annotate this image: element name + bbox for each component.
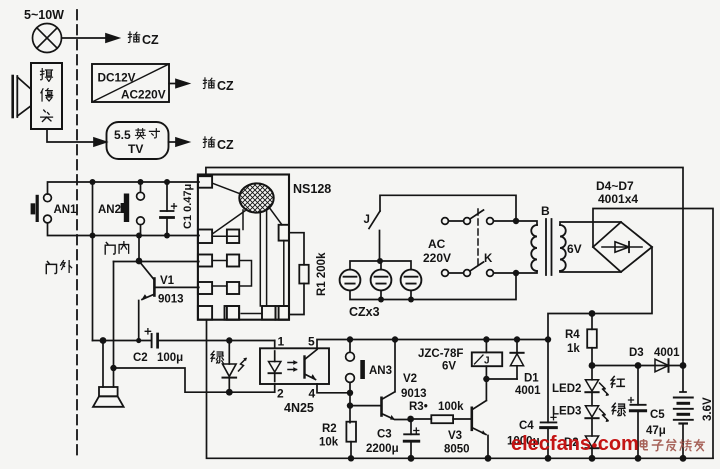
IC NS128 body: [198, 175, 289, 320]
svg-text:AN1: AN1: [54, 204, 78, 216]
wire AN2 leg down to C2 line: [92, 236, 94, 341]
svg-text:B: B: [541, 204, 550, 218]
node V2 collector: [392, 336, 398, 342]
wire AN1/AN2 divider: [92, 182, 94, 236]
pushbutton AN1: [31, 194, 78, 223]
arrow to CZ row3: [176, 138, 189, 146]
transistor V1 9013: [139, 261, 199, 341]
svg-text:9013: 9013: [158, 294, 184, 306]
node speaker right: [110, 365, 116, 371]
svg-text:1: 1: [278, 335, 285, 349]
svg-text:CZ: CZ: [142, 33, 159, 47]
svg-text:AC220V: AC220V: [121, 88, 166, 102]
node AN3 top: [347, 336, 353, 342]
bridge rectifier D4~D7: [593, 222, 652, 272]
wire chip top to right edge, down to D3 node: [206, 168, 683, 366]
svg-text:2200μ: 2200μ: [366, 443, 399, 455]
svg-text:C2: C2: [133, 352, 148, 364]
node D1 top: [514, 336, 520, 342]
svg-text:AN3: AN3: [369, 365, 392, 377]
node AN3 bottom: [347, 390, 353, 396]
label 插CZ row1: [128, 32, 159, 47]
wire left bend down to speaker node: [113, 262, 115, 369]
socket CZ 2: [371, 270, 392, 291]
node R4 top: [589, 310, 596, 317]
wire bottom rail: [207, 320, 714, 459]
svg-text:2: 2: [277, 387, 284, 401]
wire CZ bottom bus: [350, 273, 516, 299]
watermark elecfans.com: [511, 433, 705, 455]
arrow to CZ row2: [176, 80, 189, 88]
svg-text:K: K: [484, 253, 493, 265]
LED green indicator: [223, 341, 247, 393]
wire J top rail: [380, 195, 516, 218]
svg-text:R2: R2: [322, 423, 337, 435]
label 红: [611, 376, 624, 387]
svg-text:C5: C5: [650, 409, 665, 421]
pin boxes inner column: [227, 230, 239, 244]
svg-text:LED3: LED3: [552, 406, 581, 418]
svg-text:3.6V: 3.6V: [702, 397, 714, 421]
node bottom rail junctions: [348, 455, 687, 462]
coupling arrows: [288, 363, 297, 370]
svg-text:D3: D3: [629, 347, 644, 359]
diode D1 4001: [510, 340, 541, 398]
svg-text:CZ: CZ: [217, 79, 234, 93]
K actuator dashed link: [477, 209, 479, 267]
svg-text:R3•: R3•: [409, 401, 428, 413]
wire bridge left vertex to right edge: [593, 209, 713, 459]
svg-text:5.5: 5.5: [114, 128, 131, 142]
transformer B primary: [516, 221, 537, 225]
svg-text:5~10W: 5~10W: [24, 8, 64, 22]
socket CZ 1: [340, 270, 361, 291]
svg-text:C4: C4: [519, 420, 534, 432]
svg-text:J: J: [364, 214, 370, 226]
capacitor C2 100u: [133, 329, 183, 364]
svg-text:100k: 100k: [438, 401, 464, 413]
label 插CZ row2: [203, 78, 234, 93]
node rail junctions: [90, 179, 171, 239]
LED2 red: [552, 366, 609, 397]
camera box 摄像头: [31, 63, 62, 129]
label 门外: [46, 261, 71, 274]
node base branch: [347, 402, 353, 408]
optocoupler 4N25: [260, 335, 350, 416]
opto LED: [274, 351, 276, 362]
svg-text:8050: 8050: [444, 444, 470, 456]
node LED top: [226, 337, 232, 343]
svg-text:CZ: CZ: [217, 138, 234, 152]
label 门内: [105, 242, 128, 254]
pin boxes bottom row: [225, 306, 240, 320]
svg-text:6V: 6V: [442, 361, 456, 373]
TV box 5.5英寸 TV: [107, 122, 169, 159]
svg-text:V3: V3: [448, 430, 462, 442]
svg-text:5: 5: [308, 335, 315, 349]
capacitor C4 1000u: [507, 415, 556, 458]
node battery top / D3 cathode: [680, 362, 687, 369]
node V1 emitter to C2 line: [136, 338, 141, 343]
capacitor C3 2200u: [366, 419, 419, 458]
svg-text:DC12V: DC12V: [98, 71, 136, 85]
wire bridge right vertex down to output: [548, 247, 652, 340]
pushbutton AN2: [98, 182, 144, 236]
wire AN3 down through R2: [349, 393, 351, 423]
wire main mid rail: [350, 339, 548, 341]
pushbutton AN3: [346, 340, 392, 393]
svg-text:AC: AC: [428, 237, 446, 251]
wire relay coil bottom lead: [485, 366, 487, 379]
wire top button rail: [48, 182, 200, 194]
svg-text:4: 4: [309, 387, 316, 401]
wire rail down to V1 collector node: [138, 236, 140, 262]
capacitor C5 47u: [629, 366, 666, 459]
label 插CZ row3: [203, 137, 234, 152]
battery 3.6V: [674, 366, 714, 459]
wire relay to D1 anode: [486, 378, 517, 380]
wire speaker node to LED line: [114, 368, 275, 392]
node J to bus: [377, 258, 383, 264]
node LED bottom: [226, 389, 233, 396]
svg-text:TV: TV: [128, 142, 143, 156]
lamp: [33, 24, 62, 53]
microphone (hatched): [239, 183, 273, 212]
wire C2 line: [93, 340, 275, 342]
svg-text:NS128: NS128: [293, 182, 331, 196]
node speaker left: [100, 337, 107, 344]
pin boxes left column: [198, 176, 212, 188]
wire down to C4: [547, 340, 549, 423]
svg-text:D4~D7: D4~D7: [596, 179, 634, 193]
svg-text:4001x4: 4001x4: [598, 192, 638, 206]
svg-text:4N25: 4N25: [284, 401, 314, 415]
transistor V2 9013: [382, 340, 427, 420]
diode D2: [564, 418, 599, 458]
node relay bottom: [483, 376, 489, 382]
AC adapter box DC12V/AC220V: [92, 64, 169, 102]
wire lamp to arrow: [62, 37, 107, 39]
svg-text:9013: 9013: [401, 388, 427, 400]
LED3 green: [552, 392, 609, 422]
node D3 line left: [589, 362, 596, 369]
wire speaker leads: [103, 341, 114, 388]
svg-text:6V: 6V: [567, 242, 582, 256]
wire V1 node line to chip pin3: [114, 261, 199, 263]
pin 2 lead: [274, 384, 276, 392]
resistor R4 1k: [565, 314, 597, 366]
svg-text:10k: 10k: [319, 437, 339, 449]
resistor R3: [431, 415, 453, 423]
wire adapter out: [169, 83, 176, 85]
svg-text:C1 0.47μ: C1 0.47μ: [182, 184, 194, 229]
label 绿 right: [612, 403, 625, 415]
transformer B secondary: [560, 222, 621, 225]
svg-text:1k: 1k: [567, 343, 580, 355]
resistor R2: [346, 422, 356, 442]
svg-text:CZx3: CZx3: [349, 305, 380, 319]
pin boxes right column: [279, 225, 289, 241]
wire chip to R1: [289, 233, 304, 265]
pin 1 lead: [274, 341, 276, 349]
transformer core: [546, 219, 552, 275]
svg-text:220V: 220V: [423, 251, 451, 265]
pin 5 lead: [317, 340, 350, 349]
svg-text:4001: 4001: [515, 385, 541, 397]
svg-text:J: J: [484, 356, 490, 367]
svg-text:AN2: AN2: [98, 204, 121, 216]
svg-text:V1: V1: [160, 275, 175, 287]
node V1 collector junction: [136, 258, 143, 265]
node C5 top: [635, 362, 642, 369]
wire D3 line: [592, 365, 683, 367]
node R3 left / C3 top: [407, 416, 414, 423]
relay contacts K top row: [442, 210, 516, 224]
label 绿: [211, 351, 223, 363]
chip internal wires: [213, 184, 240, 194]
svg-text:V2: V2: [403, 373, 417, 385]
wire relay coil top lead: [485, 340, 487, 353]
svg-text:R4: R4: [565, 329, 580, 341]
wire R1 to chip bottom pin: [289, 284, 304, 315]
wire camera to TV arrow: [47, 129, 94, 142]
relay coil box J: [472, 352, 502, 366]
svg-text:C3: C3: [377, 429, 392, 441]
capacitor C1 0.47u: [161, 182, 195, 236]
opto transistor: [303, 357, 305, 378]
svg-text:R1 200k: R1 200k: [316, 252, 328, 296]
relay contacts K bottom row: [442, 262, 516, 276]
arrow to CZ row1: [106, 34, 119, 42]
wire CZ top bus: [350, 261, 411, 270]
svg-text:100μ: 100μ: [157, 352, 183, 364]
camera pickup horn icon: [13, 76, 31, 117]
transistor V3 8050: [444, 379, 488, 458]
wire TV out: [169, 141, 177, 143]
door dashed boundary line: [76, 10, 78, 455]
speaker: [93, 387, 124, 407]
svg-text:JZC-78F: JZC-78F: [418, 348, 463, 360]
label 5~10W: [24, 8, 64, 22]
svg-text:47μ: 47μ: [646, 425, 666, 437]
svg-text:elecfans●com: elecfans●com: [511, 433, 639, 455]
svg-text:LED2: LED2: [552, 383, 581, 395]
arrow into TV box: [94, 138, 106, 146]
resistor R1: [299, 265, 308, 284]
svg-text:D1: D1: [524, 373, 539, 385]
node mid rail right corner: [545, 336, 551, 342]
node CZ bus junctions: [378, 297, 414, 303]
svg-text:4001: 4001: [654, 347, 680, 359]
wire base line to V2: [350, 405, 381, 407]
diode D3 4001: [629, 347, 680, 372]
pin 4 lead: [317, 384, 350, 393]
node K right junctions: [513, 218, 519, 276]
node relay top: [483, 336, 489, 342]
socket CZ 3: [401, 270, 422, 291]
wire bottom button rail: [48, 223, 200, 236]
